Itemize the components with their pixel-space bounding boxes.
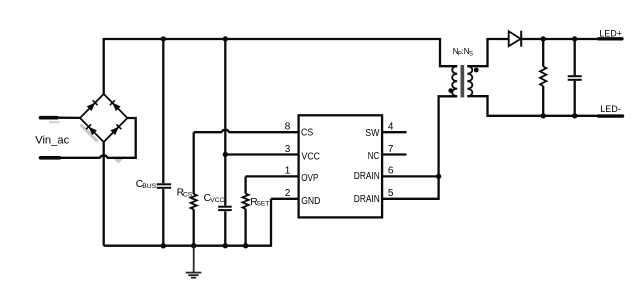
svg-text:DRAIN: DRAIN [354,194,380,205]
capacitor CBUS [157,39,171,246]
wire: pin 5 DRAIN to drain net [382,176,439,198]
wire: secondary top to output diode [467,39,508,66]
resistor (output load bleeder) [540,39,546,116]
transformer secondary polarity dot [474,68,479,73]
svg-text:CS: CS [301,128,313,139]
diode D5 (output rectifier) [509,31,522,47]
terminal LED- [599,114,623,117]
wire: pin 2 GND down to bottom bus [271,198,299,200]
bridge rectifier diode D4 (lower-right edge) [104,118,128,142]
svg-text:OVP: OVP [301,173,318,184]
terminal Vin_ac neutral [41,156,60,160]
capacitor (output filter) [568,39,582,116]
wire: bottom bus [104,199,271,246]
junction: VCC / CVCC line [223,152,228,157]
wire: phase terminal to bridge left vertex [57,117,80,120]
wire: neutral terminal to bridge right vertex (hops over bridge - line) [60,118,136,158]
junction: drain net / pin 6 [436,174,441,179]
resistor RCS [191,132,197,246]
ground [186,246,202,278]
junction: bottom bus / CVCC [223,243,228,248]
svg-text:NP:NS: NP:NS [453,47,473,58]
resistor RSET [243,176,249,245]
wire: pin 4 SW stub [382,131,406,133]
shadow of Vin_ac terminal 1 [49,121,60,123]
svg-text:LED+: LED+ [599,28,622,38]
wire: pin 7 NC stub [382,153,406,155]
terminal LED+ [599,37,623,40]
junction: bottom bus / CBUS [161,243,166,248]
terminal Vin_ac phase [41,116,58,120]
junction: top bus / CBUS branch [161,36,166,41]
shadow of bridge lower-left edge [81,125,98,142]
wire: bridge - down to bottom bus [103,142,105,246]
op-amp U1 (controller IC body) [299,115,383,217]
svg-text:DRAIN: DRAIN [354,171,380,182]
svg-text:LED-: LED- [600,104,621,114]
junction: output bottom / capacitor [572,113,577,118]
bridge rectifier diode D2 (upper-left edge) [80,94,104,118]
svg-text:NC: NC [368,151,379,162]
wire: top bus from bridge + to transformer primary top [104,39,458,95]
transformer T1 primary winding [452,66,457,96]
svg-text:RSET: RSET [250,197,269,208]
wire: secondary bottom to output return rail [467,96,598,116]
junction: bottom bus / RSET [243,243,248,248]
svg-text:1: 1 [285,166,291,177]
wire: pin 6 DRAIN to drain net [382,175,439,177]
svg-text:VCC: VCC [302,151,321,162]
svg-text:8: 8 [285,122,291,133]
junction: output top / resistor [541,36,546,41]
shadow under AC return wire [113,158,125,164]
svg-text:SW: SW [365,128,380,139]
junction: output bottom / resistor [541,113,546,118]
wire: pin 3 VCC to CVCC line [225,153,298,155]
wire: drain net up to transformer primary bottom [439,96,458,176]
bridge rectifier diode D1 (lower-left edge) [80,118,104,142]
svg-text:CVCC: CVCC [204,193,225,204]
junction: top bus / CVCC branch [223,36,228,41]
transformer T1 core [461,65,465,97]
wire: pin 1 OVP to RSET top [246,175,299,177]
svg-text:Vin_ac: Vin_ac [35,135,69,147]
svg-text:4: 4 [388,122,394,133]
wire: pin 8 CS to RCS top (hops over CVCC line) [194,130,299,132]
svg-text:CBUS: CBUS [136,179,157,190]
wire: diode cathode to LED+ terminal [521,38,598,40]
svg-text:GND: GND [301,196,320,207]
svg-text:5: 5 [388,188,394,199]
svg-text:RCS: RCS [177,187,193,198]
svg-text:6: 6 [388,166,394,177]
transformer primary polarity dot [448,88,453,93]
svg-text:7: 7 [388,144,394,155]
junction: output top / capacitor [572,36,577,41]
transformer T1 secondary winding [467,66,472,96]
junction: bottom bus / RCS / ground [191,243,196,248]
svg-text:3: 3 [285,144,291,155]
bridge rectifier diode D3 (upper-right edge) [104,94,128,118]
capacitor CVCC [218,39,232,246]
svg-text:2: 2 [285,188,291,199]
